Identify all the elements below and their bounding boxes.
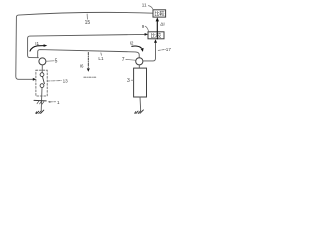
breaker upper contact	[40, 73, 44, 77]
svg-text:5: 5	[55, 58, 58, 64]
arrowhead into box B	[145, 33, 148, 36]
label 13 leader	[48, 80, 62, 82]
wire load to earth	[139, 97, 142, 111]
wire breaker to frame and earth	[40, 88, 43, 112]
CT coil 5	[39, 58, 46, 65]
label 5	[47, 60, 54, 62]
chain line under I6	[84, 76, 97, 78]
svg-text:ΔI: ΔI	[160, 21, 165, 27]
breaker lower contact	[40, 84, 44, 88]
riser and main line L1 to CT7	[38, 50, 140, 58]
breaker blade	[43, 77, 45, 84]
frame hatches	[37, 101, 44, 104]
wire CT5 to breaker	[41, 65, 43, 73]
svg-text:比較: 比較	[154, 10, 165, 18]
comparator box B (9)	[148, 32, 164, 39]
label 1	[48, 101, 51, 103]
arrowhead into breaker	[33, 78, 36, 81]
label 17	[158, 49, 165, 50]
svg-text:13: 13	[63, 79, 69, 84]
arrow delta-I from box B to box A	[156, 21, 158, 39]
breaker 13 (dashed enclosure)	[36, 70, 47, 96]
CT coil 7	[136, 58, 143, 65]
frame bar 1	[34, 99, 46, 102]
wire CT7 to load	[138, 65, 140, 68]
svg-text:11: 11	[142, 2, 147, 7]
wire CT5 to box B (left loop)	[28, 34, 145, 57]
svg-text:7: 7	[122, 57, 125, 63]
svg-text:15: 15	[85, 20, 91, 26]
svg-text:I6: I6	[80, 64, 84, 69]
svg-text:9: 9	[142, 24, 145, 29]
load 3	[134, 68, 147, 97]
svg-text:3: 3	[127, 78, 130, 84]
svg-text:1: 1	[57, 100, 60, 105]
earth (left)	[36, 110, 44, 114]
wire trip line 15 (box A left, down left side, to breaker)	[16, 12, 153, 79]
svg-text:17: 17	[166, 47, 172, 52]
svg-text:L1: L1	[98, 56, 104, 61]
wire CT7 to box B (17)	[143, 43, 156, 61]
svg-text:比較: 比較	[151, 32, 162, 40]
earth (right)	[135, 110, 144, 114]
svg-text:I2: I2	[130, 41, 134, 46]
comparator box A (11)	[153, 10, 166, 17]
